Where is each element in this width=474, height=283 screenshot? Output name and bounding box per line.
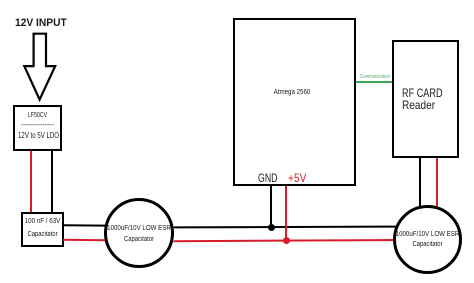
wire black: LF50CV to C1 — [51, 151, 53, 213]
regulator U1 LF50CV box — [13, 105, 62, 151]
communication line (green) — [356, 81, 393, 83]
RF card reader box — [392, 40, 459, 158]
wire red: C1 to C2 — [63, 239, 106, 242]
label Communication — [360, 74, 390, 80]
wire red bus: C2 to C3 — [174, 240, 395, 241]
wire red: RF reader to C3 — [436, 158, 438, 208]
12V input arrow — [0, 0, 80, 110]
capacitor C2 1000uF circle — [104, 198, 174, 268]
wire black: GND pin to bus — [270, 186, 272, 228]
wire red: +5V pin to bus — [285, 186, 287, 242]
wire black: RF reader to C3 — [419, 158, 421, 206]
label 12V INPUT — [15, 17, 67, 29]
label +5V (pin) — [288, 171, 306, 185]
wire red: LF50CV to C1 — [30, 151, 32, 213]
capacitor C1 box 100nF/63V — [21, 212, 64, 247]
capacitor C3 1000uF circle — [393, 205, 462, 274]
wire black bus: C2 to C3 — [174, 226, 397, 229]
junction node GND — [268, 224, 275, 231]
label GND (pin) — [258, 171, 277, 185]
MCU U2 Atmega 2560 box — [233, 18, 356, 186]
junction node +5V — [283, 237, 290, 244]
